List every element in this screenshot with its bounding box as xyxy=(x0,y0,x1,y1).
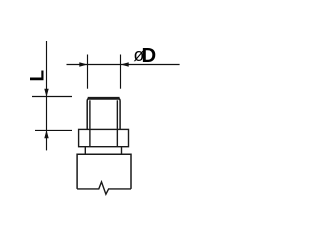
arrowhead up at bottom extension xyxy=(44,130,48,138)
thread minor diameter line right xyxy=(116,100,118,129)
collar side left xyxy=(84,147,86,155)
svg-text:L: L xyxy=(28,70,49,82)
collar side right xyxy=(121,147,123,155)
thread minor diameter line left xyxy=(89,100,91,129)
arrowhead right at left extension xyxy=(79,62,87,66)
dimension line L (vertical) xyxy=(46,41,48,150)
hex flat edge right xyxy=(116,129,118,146)
arrowhead left at right extension xyxy=(121,62,129,66)
extension line top (stud top level) xyxy=(32,96,72,98)
extension line right (stud right) xyxy=(120,55,122,89)
extension line left (stud left) xyxy=(87,55,89,89)
arrowhead down at top extension xyxy=(44,89,48,97)
hex flange outline xyxy=(79,129,129,146)
dimension line oD (horizontal) xyxy=(67,64,180,66)
stud top chamfer edge (thick) xyxy=(88,97,120,100)
hex flat edge left xyxy=(89,129,91,146)
body bottom edge with break symbol xyxy=(77,182,131,194)
svg-text:D: D xyxy=(142,45,157,67)
threaded stud outline (major diameter) xyxy=(87,98,120,129)
extension line bottom (thread end level) xyxy=(35,129,72,131)
body outline (sides and top) xyxy=(77,154,131,189)
